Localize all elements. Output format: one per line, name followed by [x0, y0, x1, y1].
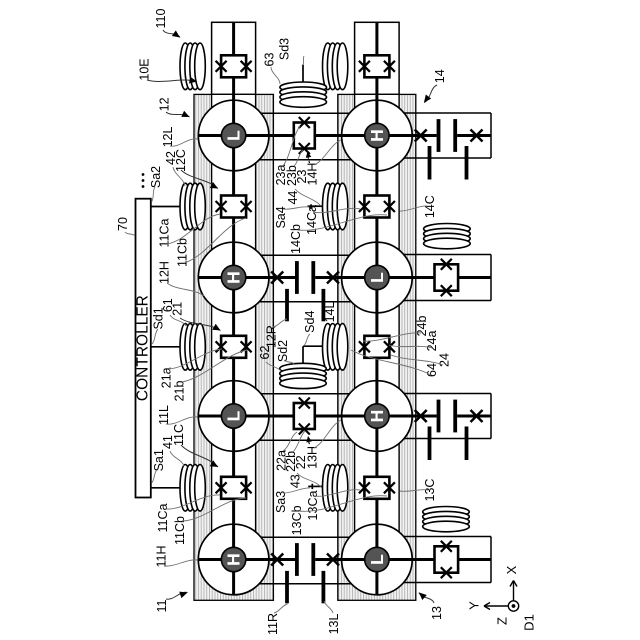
svg-text:13H: 13H — [305, 446, 319, 469]
svg-text:14Cb: 14Cb — [289, 224, 303, 254]
svg-text:L: L — [224, 130, 244, 141]
svg-text:44: 44 — [286, 191, 300, 205]
svg-text:L: L — [367, 554, 387, 565]
svg-text:H: H — [367, 410, 387, 423]
svg-text:L: L — [224, 410, 244, 421]
svg-text:13Cb: 13Cb — [290, 505, 304, 535]
svg-text:21a: 21a — [160, 367, 174, 388]
svg-text:63: 63 — [262, 53, 276, 67]
svg-text:CONTROLLER: CONTROLLER — [135, 295, 152, 401]
svg-text:70: 70 — [116, 217, 130, 231]
svg-text:21: 21 — [171, 302, 185, 316]
svg-text:11Cb: 11Cb — [173, 516, 187, 545]
svg-text:14L: 14L — [323, 302, 337, 323]
svg-text:Y: Y — [467, 601, 482, 610]
svg-text:13: 13 — [430, 606, 444, 620]
svg-text:11H: 11H — [155, 545, 169, 567]
svg-text:Sd2: Sd2 — [276, 340, 290, 362]
svg-text:X: X — [504, 565, 519, 574]
svg-text:H: H — [224, 271, 244, 284]
svg-text:L: L — [367, 272, 387, 283]
svg-text:24a: 24a — [425, 331, 439, 352]
svg-text:11: 11 — [155, 599, 169, 612]
svg-text:Z: Z — [495, 617, 510, 625]
svg-text:D1: D1 — [522, 614, 537, 631]
svg-text:11Cb: 11Cb — [176, 238, 190, 267]
svg-text:Sd4: Sd4 — [303, 311, 317, 333]
svg-text:21b: 21b — [173, 381, 187, 402]
svg-text:110: 110 — [154, 8, 168, 28]
svg-text:Sd3: Sd3 — [278, 38, 292, 60]
svg-text:12L: 12L — [161, 127, 175, 148]
svg-text:24: 24 — [438, 353, 452, 367]
svg-text:12H: 12H — [158, 261, 172, 284]
svg-text:41: 41 — [161, 435, 175, 449]
svg-text:43: 43 — [288, 474, 302, 488]
svg-text:H: H — [224, 553, 244, 566]
svg-text:Sa2: Sa2 — [149, 166, 163, 188]
svg-text:11L: 11L — [157, 405, 171, 425]
svg-text:14H: 14H — [305, 163, 319, 186]
svg-text:Sa1: Sa1 — [152, 449, 166, 471]
svg-text:14: 14 — [433, 69, 447, 83]
svg-text:14C: 14C — [423, 195, 437, 218]
svg-text:12: 12 — [157, 97, 171, 111]
svg-text:13L: 13L — [327, 614, 341, 635]
svg-text:62: 62 — [258, 346, 272, 360]
svg-text:12C: 12C — [174, 149, 188, 172]
svg-text:64: 64 — [425, 363, 439, 377]
svg-text:11Ca: 11Ca — [156, 503, 170, 532]
svg-text:10E: 10E — [137, 58, 151, 80]
svg-text:Sa3: Sa3 — [274, 491, 288, 513]
svg-text:13Ca: 13Ca — [306, 491, 320, 521]
svg-text:H: H — [367, 129, 387, 142]
svg-text:11R: 11R — [266, 613, 280, 635]
